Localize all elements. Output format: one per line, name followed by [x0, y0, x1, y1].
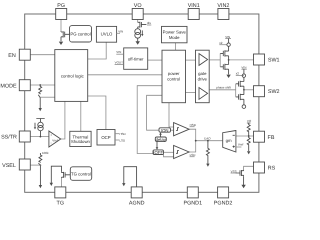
UVLO VIN stub: [117, 29, 124, 33]
junction FB divider: [248, 135, 250, 137]
svg-text:VOUT: VOUT: [115, 61, 124, 65]
tON timer block: [159, 128, 171, 133]
wire bridge2 midpoint: [243, 86, 245, 94]
svg-text:UVLO: UVLO: [101, 32, 113, 37]
wire power control to upper comparator: [169, 103, 174, 127]
wire AGND staple: [124, 167, 137, 187]
wire control logic to thermal shutdown: [80, 101, 82, 131]
svg-text:HSD: HSD: [119, 132, 126, 136]
junction bridge1 midpoint: [228, 59, 230, 61]
pin AGND: [129, 187, 145, 206]
svg-text:drive: drive: [198, 77, 208, 82]
svg-text:AGND: AGND: [129, 200, 145, 206]
pin PG: [56, 3, 67, 20]
comparator upper: [174, 123, 197, 136]
pin FB: [254, 131, 275, 142]
svg-text:dis: dis: [147, 21, 151, 25]
svg-text:Power Save: Power Save: [163, 29, 187, 34]
pin RS: [254, 162, 276, 173]
wire MODE to control logic: [30, 84, 55, 86]
wire error amp output to control logic: [61, 101, 65, 139]
wire lower comparator second input: [164, 154, 174, 157]
pin PGND1: [184, 187, 203, 206]
off-timer VIN input stub: [116, 50, 123, 54]
ground VO current source: [136, 38, 140, 45]
tOFF timer block: [153, 150, 164, 155]
node bridge2 low-side sense: [242, 105, 246, 109]
svg-text:control logic: control logic: [61, 74, 85, 79]
wire VO pin to discharge transistor: [137, 20, 139, 22]
transistor bridge2 low-side: [236, 94, 244, 100]
svg-text:x2: x2: [219, 41, 223, 45]
svg-text:SW1: SW1: [268, 58, 280, 64]
node VIN bridge2: [236, 65, 247, 77]
junction bridge2 midpoint: [243, 89, 245, 91]
wire power control to tON timer: [147, 95, 162, 130]
thermal shutdown block: [70, 131, 91, 146]
svg-text:EN: EN: [8, 53, 16, 59]
svg-text:t​OFF: t​OFF: [153, 150, 163, 155]
wire PG pin to transistor: [60, 20, 62, 32]
svg-text:VIN2: VIN2: [217, 3, 229, 9]
UVLO block: [96, 26, 116, 42]
node VIN bridge1: [219, 35, 231, 46]
svg-text:x2: x2: [236, 72, 240, 76]
wire bridge1 low-side to ground: [228, 69, 230, 74]
current source VO discharge: [135, 29, 144, 38]
wire tON to upper comparator: [171, 129, 174, 131]
wire power save mode to power control: [175, 43, 177, 50]
wire control logic to power control: [88, 74, 162, 76]
wire VSEL pin to pulldown: [30, 164, 40, 166]
svg-text:VIN1: VIN1: [188, 3, 200, 9]
junction SS/TR node: [40, 136, 42, 138]
arrow delay to tOFF: [156, 141, 159, 149]
pin VIN2: [217, 3, 229, 20]
wire power control to tOFF timer: [137, 86, 162, 154]
svg-text:PG: PG: [57, 3, 65, 9]
delay block: [155, 137, 166, 142]
wire RS pin to transistor: [244, 166, 254, 170]
switch VSEL pulldown: [39, 163, 41, 166]
power control block: [162, 50, 186, 102]
wire gate drive to SW1 bridge gates: [210, 59, 221, 61]
arrow delay to tON: [159, 132, 162, 137]
junction compensation node: [207, 140, 209, 142]
gate drive block: [196, 50, 210, 102]
wire comparator node to gm output: [196, 140, 223, 142]
wire VSEL pulldown to ground arrow: [39, 166, 42, 188]
svg-text:PGND2: PGND2: [214, 200, 233, 206]
pin SS/TR: [1, 131, 30, 142]
wire MODE pulldown to ground arrow: [39, 98, 42, 112]
svg-text:gate: gate: [198, 71, 207, 76]
svg-text:FB: FB: [268, 135, 275, 141]
pin VIN1: [188, 3, 200, 20]
svg-text:power: power: [168, 71, 180, 76]
svg-text:LSD: LSD: [119, 138, 126, 142]
pin MODE: [0, 80, 30, 91]
wire MODE pulldown tap to control logic: [40, 96, 55, 98]
svg-text:VIN: VIN: [118, 29, 123, 33]
svg-text:VO: VO: [134, 3, 142, 9]
wire EN to control logic: [30, 54, 55, 56]
svg-text:SS/TR: SS/TR: [1, 135, 17, 141]
svg-text:delay: delay: [156, 137, 167, 142]
wire comparator outputs join: [189, 129, 196, 152]
PG control block: [70, 26, 92, 42]
gm error amplifier: [223, 131, 236, 153]
pin VSEL: [2, 159, 30, 170]
wire phase shift gate drive to SW2 bridge: [210, 89, 236, 91]
label RS transistor gate: [231, 169, 237, 173]
svg-text:t​ON: t​ON: [161, 128, 169, 133]
wire bridge1 gates: [219, 53, 221, 66]
svg-text:off-timer: off-timer: [128, 57, 144, 62]
resistor MODE pulldown: [39, 84, 42, 94]
control logic U1: [55, 50, 88, 102]
transistor TG: [62, 171, 71, 178]
Power Save Mode block: [162, 26, 188, 42]
svg-text:100k: 100k: [42, 151, 49, 155]
wire TG pin to transistor: [61, 178, 63, 187]
transistor PG open-drain: [61, 31, 70, 41]
svg-text:Mode: Mode: [169, 35, 180, 40]
wire SS/TR to error amp: [30, 136, 49, 138]
transistor RS: [235, 170, 243, 177]
wire bridge2 low-side to sense: [243, 99, 245, 105]
svg-text:VIN: VIN: [116, 50, 121, 54]
svg-text:PG control: PG control: [70, 31, 90, 36]
transistor bridge2 high-side: [236, 81, 244, 87]
wire border ring: [25, 14, 259, 192]
wire control logic to OCP: [88, 96, 106, 130]
pin VO: [132, 3, 143, 20]
off-timer VOUT input stub: [115, 61, 124, 65]
wire SW1 bridge midpoint to SW1 pin: [229, 59, 254, 61]
off-timer block: [124, 48, 148, 69]
wire power control to gate drive lower: [186, 92, 196, 94]
svg-text:TG: TG: [57, 200, 65, 206]
svg-text:MODE: MODE: [0, 83, 17, 89]
svg-text:SW2: SW2: [268, 89, 280, 95]
svg-text:VSEL: VSEL: [2, 163, 16, 169]
gm Vref input stub: [236, 142, 244, 147]
pin TG: [55, 187, 66, 206]
wire bridge1 midpoint: [228, 56, 230, 65]
svg-text:RS: RS: [268, 166, 276, 172]
resistor FB divider upper with VO label: [247, 119, 252, 136]
ground bridge1: [226, 75, 230, 78]
wire off-timer to power control: [148, 59, 162, 61]
label VO discharge gate: [147, 21, 151, 25]
pin EN: [8, 49, 30, 60]
OCP LSD stub: [115, 138, 126, 142]
wire bridge1 sense to high-side FET: [228, 46, 230, 51]
ground PG transistor: [59, 42, 63, 45]
ground RS transistor: [241, 177, 245, 188]
svg-text:V​ref: V​ref: [52, 138, 58, 142]
pin SW2: [254, 86, 280, 97]
junction VSEL node: [40, 164, 42, 166]
wire bridge2 gates: [235, 84, 237, 97]
resistor VSEL pulldown with 100k label: [39, 151, 49, 163]
comparator lower: [174, 145, 197, 158]
op-amp error amplifier: [49, 131, 61, 147]
transistor bridge1 low-side: [220, 64, 228, 70]
wire UVLO to control logic: [88, 42, 107, 59]
current source SS/TR: [34, 119, 45, 137]
svg-text:gm: gm: [226, 138, 232, 143]
wire bridge2 sense to high-side FET: [243, 77, 245, 81]
OCP HSD stub: [115, 132, 127, 136]
switch MODE pulldown: [38, 95, 40, 98]
pin SW1: [254, 54, 280, 65]
wire tOFF to lower comparator: [164, 151, 174, 153]
svg-text:phase shift: phase shift: [216, 86, 231, 90]
wire power control to gate drive upper: [186, 59, 196, 61]
svg-text:OCP: OCP: [101, 135, 110, 140]
svg-text:+: +: [50, 133, 52, 137]
svg-text:PGND1: PGND1: [184, 200, 203, 206]
transistor VO discharge: [138, 22, 147, 29]
wire SW2 bridge midpoint to SW2 pin: [244, 89, 254, 91]
resistor FB divider lower: [247, 136, 250, 154]
wire FB pin to gm amp: [236, 135, 254, 137]
wire TG transistor drain loop to ground arrow: [50, 166, 62, 186]
junction comparator node: [195, 140, 197, 142]
transistor bridge1 high-side: [220, 50, 228, 56]
TG control block: [70, 167, 91, 181]
arrow AGND staple: [122, 183, 125, 186]
OCP block: [97, 130, 115, 146]
pin PGND2: [214, 187, 233, 206]
svg-text:TG control: TG control: [71, 171, 91, 176]
resistor compensation: [206, 141, 209, 167]
svg-text:V​ref: V​ref: [238, 142, 244, 146]
svg-text:control: control: [167, 77, 180, 82]
svg-text:Shutdown: Shutdown: [71, 139, 91, 144]
svg-text:EAO: EAO: [204, 137, 211, 141]
